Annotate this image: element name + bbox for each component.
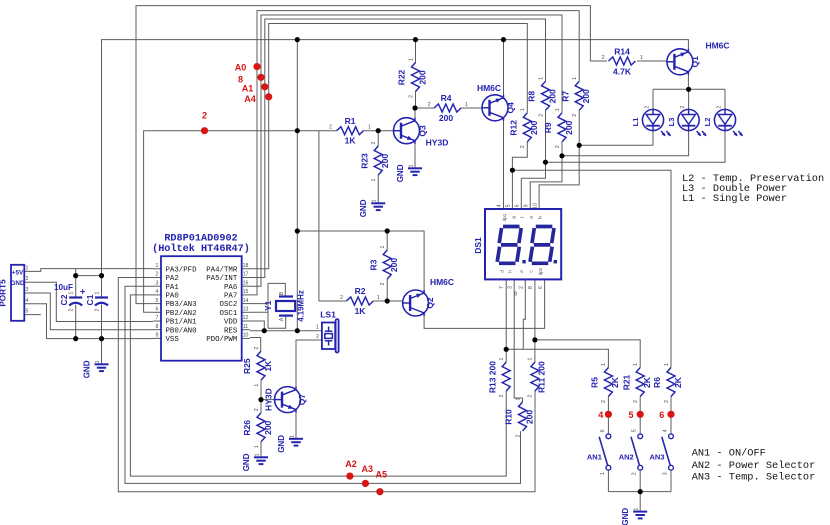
svg-text:10: 10 <box>243 333 249 339</box>
svg-text:1K: 1K <box>345 136 357 146</box>
svg-text:1: 1 <box>371 178 377 181</box>
svg-text:R4: R4 <box>441 93 452 103</box>
svg-text:2: 2 <box>520 145 526 148</box>
svg-text:A4: A4 <box>244 94 256 104</box>
svg-text:6: 6 <box>156 307 159 313</box>
svg-text:4: 4 <box>26 298 29 304</box>
svg-text:2: 2 <box>254 347 260 350</box>
svg-text:HM6C: HM6C <box>430 277 454 287</box>
svg-text:2: 2 <box>202 110 207 120</box>
svg-text:R12: R12 <box>509 120 519 136</box>
svg-text:b: b <box>538 216 543 219</box>
svg-text:R11 200: R11 200 <box>537 361 547 393</box>
svg-text:R26: R26 <box>242 420 252 436</box>
svg-text:R22: R22 <box>397 69 407 85</box>
svg-text:2: 2 <box>254 408 260 411</box>
svg-text:6: 6 <box>515 204 521 207</box>
svg-text:8: 8 <box>156 324 159 330</box>
svg-text:9: 9 <box>523 204 529 207</box>
svg-text:DS1: DS1 <box>473 237 483 254</box>
svg-text:GND: GND <box>11 280 25 287</box>
svg-text:PB3/AN3: PB3/AN3 <box>166 301 197 309</box>
svg-text:1: 1 <box>408 58 414 61</box>
svg-text:4.7K: 4.7K <box>613 66 632 76</box>
svg-text:Q3: Q3 <box>418 125 428 137</box>
svg-text:1: 1 <box>640 55 643 61</box>
svg-text:PA2: PA2 <box>166 275 179 283</box>
svg-text:2: 2 <box>340 295 343 301</box>
svg-text:2: 2 <box>316 334 319 340</box>
svg-text:RD8P01AD0902: RD8P01AD0902 <box>164 233 237 244</box>
svg-text:1: 1 <box>254 384 260 387</box>
svg-text:AN3: AN3 <box>649 453 664 462</box>
svg-text:2K: 2K <box>610 376 620 388</box>
svg-text:1K: 1K <box>263 360 273 372</box>
svg-text:A5: A5 <box>376 469 388 479</box>
svg-text:1: 1 <box>156 263 159 269</box>
svg-text:1: 1 <box>528 358 534 361</box>
svg-text:PB0/AN0: PB0/AN0 <box>166 327 197 335</box>
svg-text:200: 200 <box>529 120 539 134</box>
svg-text:5: 5 <box>632 429 638 432</box>
svg-text:R25: R25 <box>242 358 252 374</box>
svg-text:A0: A0 <box>235 62 247 72</box>
svg-text:PA5/INT: PA5/INT <box>206 275 238 283</box>
svg-text:PB1/AN1: PB1/AN1 <box>166 319 198 327</box>
svg-text:200: 200 <box>524 410 534 424</box>
svg-text:4.19MHz: 4.19MHz <box>296 290 305 322</box>
svg-text:HY3D: HY3D <box>264 388 274 411</box>
svg-text:7: 7 <box>156 315 159 321</box>
svg-text:1: 1 <box>633 363 639 366</box>
svg-text:AN1 - ON/OFF: AN1 - ON/OFF <box>692 447 766 459</box>
svg-text:a: a <box>529 216 534 219</box>
svg-text:1: 1 <box>601 363 607 366</box>
svg-text:dp1: dp1 <box>502 213 507 221</box>
svg-text:1: 1 <box>254 445 260 448</box>
svg-text:R1: R1 <box>345 116 356 126</box>
svg-text:GND: GND <box>396 164 405 182</box>
svg-text:2: 2 <box>156 272 159 278</box>
svg-text:L3: L3 <box>667 118 676 127</box>
svg-text:L1: L1 <box>631 118 640 127</box>
svg-text:200: 200 <box>564 120 574 134</box>
svg-text:1: 1 <box>572 77 578 80</box>
svg-text:1: 1 <box>600 472 606 475</box>
svg-text:C1: C1 <box>85 294 95 305</box>
svg-text:AN2: AN2 <box>619 453 634 462</box>
svg-text:1: 1 <box>520 108 526 111</box>
svg-text:2K: 2K <box>642 376 652 388</box>
svg-text:OSC2: OSC2 <box>220 301 238 309</box>
svg-text:6: 6 <box>600 429 606 432</box>
svg-text:8: 8 <box>528 286 534 289</box>
svg-text:2: 2 <box>555 145 561 148</box>
svg-text:GND: GND <box>277 435 286 453</box>
svg-text:12: 12 <box>243 315 249 321</box>
svg-text:AN2 - Power Selector: AN2 - Power Selector <box>692 460 816 472</box>
svg-text:R9: R9 <box>543 122 553 133</box>
svg-text:VSS: VSS <box>166 336 180 344</box>
svg-text:d: d <box>499 270 504 273</box>
svg-text:3: 3 <box>507 286 513 289</box>
svg-text:2: 2 <box>95 308 101 311</box>
svg-text:A2: A2 <box>345 459 357 469</box>
svg-text:GND: GND <box>242 453 251 471</box>
svg-text:2: 2 <box>632 472 638 475</box>
svg-text:Y1: Y1 <box>263 300 273 311</box>
svg-text:200: 200 <box>439 113 453 123</box>
svg-text:1: 1 <box>465 102 468 108</box>
svg-text:16: 16 <box>243 280 249 286</box>
svg-text:R21: R21 <box>621 374 631 390</box>
svg-text:2: 2 <box>499 395 505 398</box>
svg-text:2: 2 <box>633 400 639 403</box>
svg-text:(Holtek HT46R47): (Holtek HT46R47) <box>152 243 250 255</box>
svg-text:1: 1 <box>409 164 415 167</box>
svg-text:PA4/TMR: PA4/TMR <box>206 266 238 274</box>
svg-text:14: 14 <box>243 298 249 304</box>
svg-text:L1 - Single Power: L1 - Single Power <box>682 193 787 205</box>
svg-text:200: 200 <box>380 154 390 168</box>
svg-text:1: 1 <box>95 360 101 363</box>
svg-text:5: 5 <box>26 309 29 315</box>
svg-text:2: 2 <box>601 400 607 403</box>
svg-text:1K: 1K <box>355 306 367 316</box>
svg-text:5: 5 <box>156 298 159 304</box>
svg-text:OSC1: OSC1 <box>220 310 238 318</box>
svg-text:2: 2 <box>664 400 670 403</box>
svg-text:4: 4 <box>663 429 669 432</box>
svg-text:200: 200 <box>417 70 427 84</box>
svg-text:R10: R10 <box>504 409 514 425</box>
svg-text:HM6C: HM6C <box>705 41 729 51</box>
svg-text:7: 7 <box>499 286 505 289</box>
svg-text:L2: L2 <box>703 118 712 127</box>
svg-text:1: 1 <box>664 363 670 366</box>
svg-text:C2: C2 <box>59 294 69 305</box>
svg-text:R13 200: R13 200 <box>487 361 497 393</box>
svg-text:HM6C: HM6C <box>477 83 501 93</box>
svg-text:R23: R23 <box>359 153 369 169</box>
svg-text:PA6: PA6 <box>224 284 237 292</box>
svg-text:10: 10 <box>532 203 538 209</box>
svg-text:PA7: PA7 <box>224 293 237 301</box>
svg-text:2: 2 <box>538 114 544 117</box>
svg-text:2: 2 <box>680 106 686 109</box>
svg-text:1: 1 <box>499 358 505 361</box>
svg-text:2: 2 <box>329 125 332 131</box>
svg-text:11: 11 <box>243 324 248 330</box>
svg-text:3: 3 <box>156 280 159 286</box>
svg-text:2: 2 <box>515 434 521 437</box>
svg-text:1: 1 <box>316 325 319 331</box>
svg-text:2: 2 <box>645 106 651 109</box>
svg-text:B: B <box>279 291 285 295</box>
svg-text:h: h <box>508 270 513 273</box>
svg-text:LS1: LS1 <box>320 310 336 320</box>
svg-text:4: 4 <box>156 289 159 295</box>
svg-text:6: 6 <box>659 410 664 420</box>
svg-text:R5: R5 <box>590 377 600 388</box>
svg-text:Q4: Q4 <box>506 102 516 114</box>
svg-text:2: 2 <box>69 308 75 311</box>
svg-text:GND: GND <box>83 360 92 378</box>
svg-text:1: 1 <box>538 77 544 80</box>
svg-text:200: 200 <box>263 420 273 434</box>
svg-text:PORT5: PORT5 <box>0 279 8 307</box>
svg-text:dp2: dp2 <box>538 267 543 275</box>
svg-text:1: 1 <box>634 508 640 511</box>
svg-text:R7: R7 <box>560 91 570 102</box>
svg-text:200: 200 <box>547 89 557 103</box>
svg-text:2: 2 <box>602 55 605 61</box>
svg-text:9: 9 <box>156 333 159 339</box>
svg-text:A1: A1 <box>242 84 254 94</box>
svg-text:R2: R2 <box>355 286 366 296</box>
svg-text:1: 1 <box>368 125 371 131</box>
svg-text:2: 2 <box>428 102 431 108</box>
svg-text:PB2/AN2: PB2/AN2 <box>166 310 197 318</box>
svg-text:1: 1 <box>515 397 521 400</box>
svg-text:200: 200 <box>389 258 399 272</box>
svg-text:Q2: Q2 <box>425 297 435 309</box>
svg-text:15: 15 <box>243 289 249 295</box>
svg-text:4: 4 <box>598 410 603 420</box>
svg-text:R8: R8 <box>527 91 537 102</box>
svg-text:PA3/PFD: PA3/PFD <box>166 266 198 274</box>
svg-text:1: 1 <box>555 108 561 111</box>
svg-text:2: 2 <box>371 141 377 144</box>
svg-text:2: 2 <box>528 395 534 398</box>
svg-text:5: 5 <box>506 204 512 207</box>
svg-text:Q1: Q1 <box>690 56 700 68</box>
svg-text:2: 2 <box>717 106 723 109</box>
svg-text:g: g <box>511 216 516 219</box>
svg-text:17: 17 <box>243 272 249 278</box>
svg-text:AN3 - Temp. Selector: AN3 - Temp. Selector <box>692 472 816 484</box>
svg-text:R3: R3 <box>368 259 378 270</box>
svg-text:200: 200 <box>581 89 591 103</box>
svg-text:2: 2 <box>408 95 414 98</box>
svg-text:1: 1 <box>290 435 296 438</box>
svg-text:2: 2 <box>380 282 386 285</box>
svg-text:1: 1 <box>372 199 378 202</box>
svg-text:A: A <box>279 317 285 321</box>
svg-text:1: 1 <box>377 295 380 301</box>
svg-text:HY3D: HY3D <box>426 138 449 148</box>
svg-text:R6: R6 <box>652 377 662 388</box>
svg-text:PDO/PWM: PDO/PWM <box>206 336 237 344</box>
svg-text:AN1: AN1 <box>587 453 602 462</box>
svg-text:A3: A3 <box>362 464 374 474</box>
svg-text:Q7: Q7 <box>297 394 307 406</box>
svg-text:1: 1 <box>26 265 29 271</box>
svg-text:1: 1 <box>380 245 386 248</box>
svg-text:13: 13 <box>243 307 249 313</box>
svg-text:3: 3 <box>26 287 29 293</box>
svg-text:10uF: 10uF <box>54 283 73 292</box>
svg-text:PA1: PA1 <box>166 284 180 292</box>
svg-text:4: 4 <box>497 204 503 207</box>
svg-text:PA0: PA0 <box>166 293 179 301</box>
svg-text:18: 18 <box>243 263 249 269</box>
svg-text:R14: R14 <box>614 47 630 57</box>
svg-text:RES: RES <box>224 327 238 335</box>
svg-text:2: 2 <box>572 114 578 117</box>
svg-text:+5V: +5V <box>12 269 24 276</box>
svg-text:GND: GND <box>621 508 630 525</box>
svg-text:VDD: VDD <box>224 319 238 327</box>
svg-text:e: e <box>519 270 524 273</box>
svg-text:1: 1 <box>95 291 101 294</box>
svg-text:1: 1 <box>255 453 261 456</box>
svg-text:B: B <box>514 292 518 298</box>
svg-text:3: 3 <box>663 472 669 475</box>
svg-text:6: 6 <box>538 286 544 289</box>
svg-text:5: 5 <box>628 410 633 420</box>
svg-text:GND: GND <box>359 199 368 217</box>
svg-text:2: 2 <box>519 286 525 289</box>
svg-text:2K: 2K <box>673 376 683 388</box>
svg-text:2: 2 <box>26 276 29 282</box>
